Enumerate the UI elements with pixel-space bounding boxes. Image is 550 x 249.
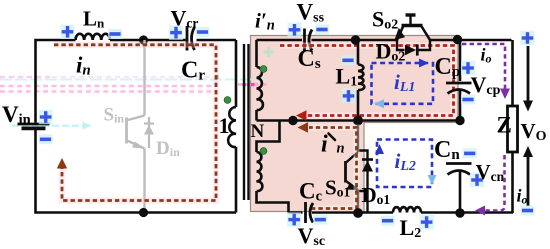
current loop in (dark red dashed) [54, 45, 216, 201]
capacitor Cn (Vcn) [446, 162, 472, 165]
wire: middle rail [257, 119, 461, 122]
svg-text:i: i [321, 132, 328, 158]
ghost magenta arrow into core y84.5 [238, 83, 270, 85]
capacitor Cs (Vss) [303, 29, 306, 52]
capacitor Cr (Vcr) [186, 26, 189, 51]
wire: left circuit bottom [36, 130, 237, 213]
node: middle rail right [455, 116, 464, 125]
ghost mint plus [264, 47, 274, 57]
inductor L2 [393, 207, 421, 212]
output current io (purple dashed, bottom) [481, 155, 505, 211]
ghost line cyan y79.5 [0, 79, 268, 81]
current loop i'n (red dashed) [280, 46, 454, 116]
battery Vin [18, 123, 50, 126]
current loop iL2 (blue dashed) [377, 140, 432, 188]
wire: bottom rail [289, 211, 514, 214]
node: Sin bottom junction [139, 208, 148, 217]
node: top right corner [453, 35, 462, 44]
switch So1 [346, 121, 359, 214]
ghost line magenta y77 [0, 76, 52, 78]
transformer primary winding (1) [235, 40, 238, 107]
svg-text:Z: Z [497, 113, 512, 138]
capacitor Cc (Vsc) [304, 202, 307, 223]
output voltage Vo indicator [521, 31, 535, 45]
ghost cyan arrow near Vin y125.7 [12, 125, 84, 127]
current loop iL1 (blue dashed) [372, 63, 434, 104]
inductor L1 [357, 40, 360, 65]
switch So2 [397, 15, 430, 40]
svg-text:n: n [337, 141, 345, 157]
diode Do2 [397, 40, 430, 50]
svg-text:1: 1 [219, 113, 230, 138]
output current io (purple dashed, top) [462, 44, 505, 89]
node: L1/So1 on middle rail [353, 116, 363, 126]
transformer secondary top winding [255, 40, 258, 67]
wire: left circuit top [36, 40, 237, 123]
node: Cn bottom [455, 208, 464, 217]
diode Din (gray) [144, 117, 154, 148]
diode Do1 [358, 151, 368, 214]
wire: load branch [511, 40, 514, 213]
svg-text:N: N [251, 121, 265, 142]
ghost line magenta y86 [0, 85, 216, 87]
node: Ln-Cr junction [139, 35, 148, 44]
wire: pink region top [257, 39, 512, 42]
node: L1 top [351, 35, 360, 44]
capacitor Cp (Vcp) [459, 40, 462, 81]
polarity dot secondary bottom [260, 148, 267, 155]
load Z [508, 106, 518, 152]
inductor Ln [76, 34, 110, 40]
transformer core [243, 44, 245, 200]
ghost line magenta y91.5 [0, 90, 216, 92]
shaded cell region (pink L-shape) [251, 36, 459, 212]
node: N branch on middle rail [288, 116, 297, 125]
polarity dot secondary top [260, 66, 267, 73]
transformer secondary bottom winding (N) [257, 121, 280, 153]
switch Sin (gray, inactive) [127, 40, 145, 213]
polarity dot primary [224, 97, 231, 104]
current loop i`n (dark red dashed via Cc) [309, 128, 357, 209]
node: So1 bottom [353, 208, 363, 218]
